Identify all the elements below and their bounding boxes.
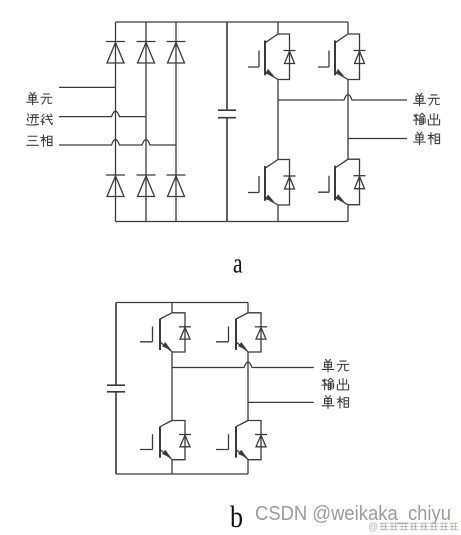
- svg-text:a: a: [233, 248, 243, 280]
- svg-text:@: @: [368, 522, 378, 533]
- svg-text:b: b: [230, 499, 243, 534]
- svg-text:CSDN @weikaka_chiyu: CSDN @weikaka_chiyu: [255, 503, 451, 525]
